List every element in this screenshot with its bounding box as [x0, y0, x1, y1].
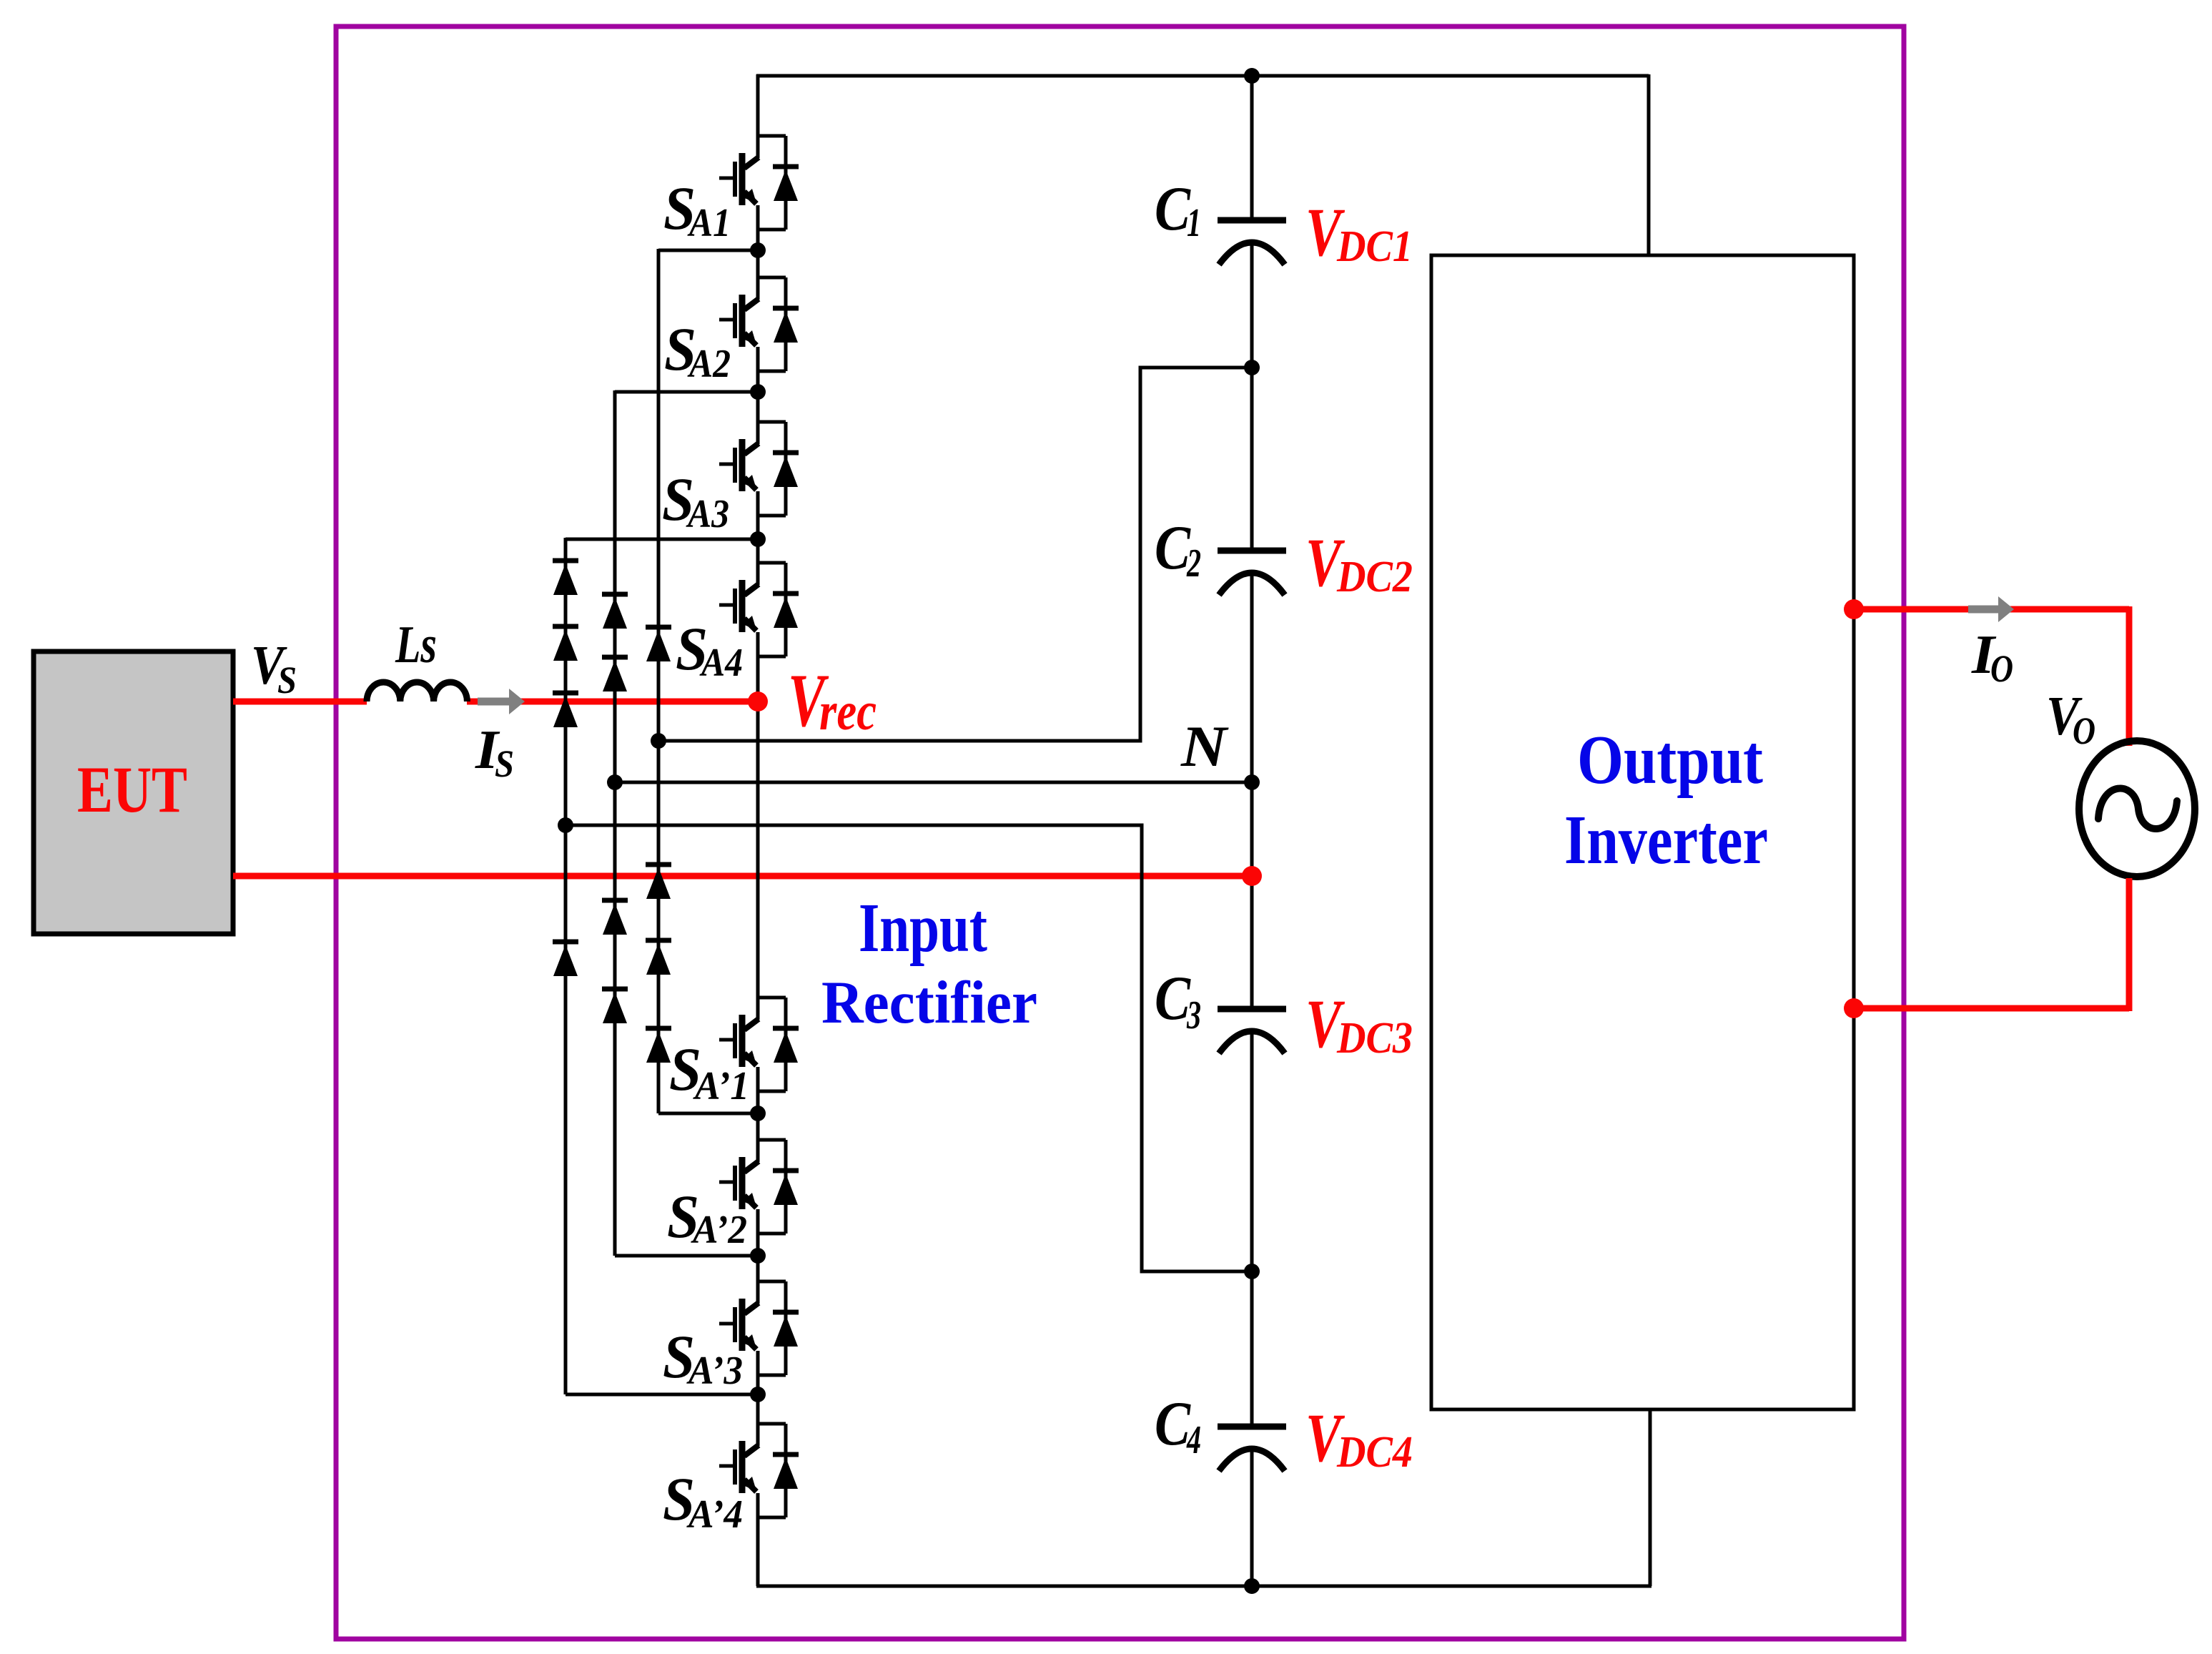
label S_A4	[676, 614, 743, 685]
wire: clamp column x=921	[658, 249, 758, 1113]
label V_DC2	[1305, 524, 1413, 601]
diode D32	[646, 865, 671, 899]
svg-text:Rectifier: Rectifier	[821, 969, 1037, 1036]
node V_rec (red)	[748, 691, 768, 712]
svg-text:A’1: A’1	[693, 1064, 749, 1108]
node: capacitor rail / bottom bus	[1244, 1578, 1260, 1594]
label C1	[1155, 174, 1201, 245]
svg-text:A2: A2	[687, 342, 731, 386]
svg-text:S: S	[277, 659, 297, 702]
wire: capacitor rail	[1250, 76, 1254, 1586]
label S_A'4	[663, 1465, 743, 1537]
diode D24	[602, 989, 628, 1023]
transistor S_A'4 (IGBT with antiparallel diode)	[719, 1424, 799, 1517]
label S_A'1	[669, 1035, 749, 1108]
svg-text:N: N	[1180, 714, 1229, 779]
svg-text:rec: rec	[819, 681, 877, 742]
diode D33	[646, 940, 671, 975]
label Output Inverter	[1564, 722, 1768, 879]
wire: link column 860 to node N	[607, 774, 1252, 790]
label EUT	[77, 753, 187, 826]
label N	[1180, 714, 1229, 779]
block: Output Inverter box	[1431, 255, 1854, 1409]
wire: clamp column x=860	[615, 390, 758, 1256]
label S_A1	[663, 174, 731, 245]
transistor S_A4 (IGBT with antiparallel diode)	[719, 563, 799, 656]
node after S_A3	[566, 531, 766, 547]
arrow Io (gray current arrow)	[1968, 596, 2014, 622]
wire: switch-chain rail segments	[756, 74, 760, 1586]
svg-text:DC4: DC4	[1336, 1428, 1413, 1477]
svg-text:A1: A1	[687, 201, 731, 245]
wire: EUT bottom return (red)	[233, 873, 1252, 880]
label I_S	[475, 719, 514, 785]
diode D13	[553, 693, 578, 727]
svg-text:A’3: A’3	[686, 1349, 743, 1393]
svg-text:Input: Input	[859, 890, 987, 967]
diode D12	[553, 626, 578, 661]
node: top bus / capacitor rail	[1244, 68, 1260, 84]
diode D14	[553, 942, 578, 976]
label Ls	[395, 616, 437, 674]
diode D22	[602, 657, 628, 691]
svg-text:DC2: DC2	[1336, 553, 1413, 601]
svg-text:4: 4	[1186, 1418, 1201, 1462]
svg-text:C: C	[1155, 513, 1191, 583]
wire: clamp column x=791	[566, 538, 758, 1394]
node: output top terminal (red)	[1844, 599, 1864, 619]
wire: output top (red)	[1854, 606, 2129, 746]
source V_O (AC source)	[2079, 741, 2195, 877]
diode D34	[646, 1028, 671, 1063]
svg-text:A’4: A’4	[686, 1492, 743, 1537]
label V_DC3	[1305, 985, 1413, 1063]
label I_O	[1971, 624, 2013, 690]
svg-text:2: 2	[1186, 541, 1201, 586]
label C3	[1155, 964, 1201, 1038]
svg-text:3: 3	[1186, 993, 1201, 1038]
svg-text:Ls: Ls	[395, 616, 437, 674]
transistor S_A'1 (IGBT with antiparallel diode)	[719, 998, 799, 1091]
transistor S_A3 (IGBT with antiparallel diode)	[719, 422, 799, 516]
wire: link column 791 to C3/C4 midpoint	[558, 817, 1252, 1271]
capacitor C1	[1218, 220, 1286, 265]
capacitor C3	[1218, 1009, 1286, 1053]
svg-text:O: O	[2073, 709, 2095, 752]
svg-text:Output: Output	[1577, 722, 1763, 798]
svg-text:DC3: DC3	[1336, 1014, 1413, 1063]
label V_S	[251, 634, 297, 702]
label S_A'3	[663, 1322, 743, 1393]
svg-text:A4: A4	[699, 641, 743, 685]
node after S_A1	[658, 242, 766, 258]
wire: link column 921 to C1/C2 midpoint	[651, 368, 1252, 749]
svg-text:C: C	[1155, 174, 1191, 244]
arrow Is (gray current arrow)	[478, 689, 525, 714]
transistor S_A1 (IGBT with antiparallel diode)	[719, 136, 799, 230]
svg-text:S: S	[495, 742, 514, 785]
diode D11	[553, 561, 578, 595]
label S_A'2	[667, 1182, 747, 1252]
wire: inverter bottom drop	[1649, 1409, 1652, 1586]
svg-text:O: O	[1990, 647, 2013, 690]
label C2	[1155, 513, 1201, 586]
node before S_A'2	[750, 1106, 766, 1121]
svg-text:EUT: EUT	[77, 753, 187, 826]
diode D21	[602, 594, 628, 629]
transistor S_A'2 (IGBT with antiparallel diode)	[719, 1140, 799, 1234]
label C4	[1155, 1389, 1201, 1462]
node before S_A'3	[750, 1248, 766, 1264]
label S_A3	[662, 465, 729, 536]
wire: bottom DC bus	[756, 1585, 1651, 1588]
svg-text:C: C	[1155, 1389, 1191, 1459]
label V_DC4	[1305, 1399, 1413, 1477]
node after S_A2	[615, 384, 766, 400]
label V_rec	[788, 659, 877, 742]
node before S_A'4	[750, 1387, 766, 1402]
node: output bottom terminal (red)	[1844, 998, 1864, 1018]
node N	[1244, 774, 1260, 790]
diode D31	[646, 627, 671, 661]
outer purple boundary frame	[336, 26, 1904, 1639]
node C3/C4 midpoint	[1244, 1264, 1260, 1279]
label V_O	[2046, 685, 2095, 752]
transistor S_A'3 (IGBT with antiparallel diode)	[719, 1281, 799, 1375]
svg-text:A’2: A’2	[691, 1208, 747, 1252]
capacitor C4	[1218, 1427, 1286, 1471]
svg-text:Inverter: Inverter	[1564, 802, 1768, 879]
svg-text:C: C	[1155, 964, 1191, 1033]
transistor S_A2 (IGBT with antiparallel diode)	[719, 277, 799, 371]
label S_A2	[664, 315, 731, 386]
svg-text:A3: A3	[686, 492, 729, 536]
capacitor C2	[1218, 551, 1286, 595]
EUT box	[34, 651, 233, 934]
wire: output bottom (red)	[1854, 878, 2129, 1011]
inductor Ls	[367, 682, 467, 702]
diode D23	[602, 900, 628, 935]
wire: Vs phase (red, EUT top to Vrec)	[233, 699, 758, 705]
svg-text:DC1: DC1	[1336, 222, 1413, 271]
node C1/C2 midpoint	[1244, 360, 1260, 375]
wire: top DC bus	[756, 74, 1649, 255]
label Input Rectifier	[821, 890, 1037, 1036]
label V_DC1	[1305, 194, 1413, 271]
svg-text:1: 1	[1187, 201, 1201, 245]
node: red return tap on capacitor rail	[1242, 866, 1262, 886]
